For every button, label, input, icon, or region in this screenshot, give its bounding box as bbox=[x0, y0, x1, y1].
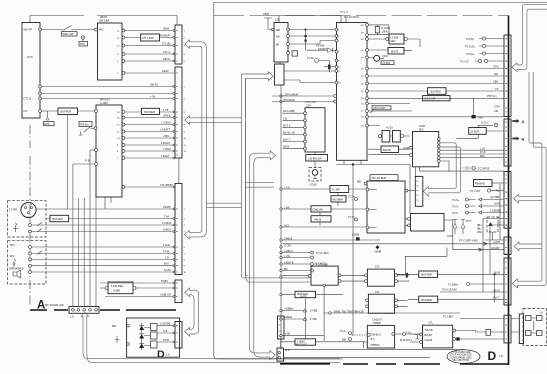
wire IC602 outputs to strip CN602 bbox=[125, 112, 175, 187]
wire packs to strip CN605 bbox=[157, 326, 175, 342]
diode D602 bbox=[139, 334, 144, 339]
svg-text:4.5V +5V: 4.5V +5V bbox=[305, 100, 316, 104]
trimmer RT601 bbox=[79, 122, 92, 127]
svg-text:5V(B): 5V(B) bbox=[161, 279, 168, 283]
box T4 bbox=[311, 216, 331, 222]
svg-text:(BL): (BL) bbox=[477, 223, 482, 227]
label box 2.2-5 OF bbox=[423, 96, 451, 101]
svg-text:TO-C: TO-C bbox=[340, 329, 346, 333]
svg-text:S-D-1: S-D-1 bbox=[481, 121, 488, 125]
pot symbol in jack box bbox=[13, 223, 18, 233]
svg-text:MIC: MIC bbox=[10, 254, 15, 258]
diodes D702 D703 bbox=[453, 224, 457, 229]
svg-text:L30 BN SW: L30 BN SW bbox=[308, 156, 322, 160]
cap symbols near CASS bbox=[349, 332, 352, 335]
svg-text:+5B L: +5B L bbox=[163, 134, 170, 138]
svg-text:SPEAKER 8: SPEAKER 8 bbox=[9, 267, 24, 271]
svg-text:BM: BM bbox=[342, 338, 346, 342]
hollow arrow A1 to CN601 bbox=[185, 40, 201, 49]
connector J901 bottom left bbox=[277, 348, 284, 361]
junction square LT5B bbox=[456, 337, 459, 340]
svg-text:+5MHz: +5MHz bbox=[284, 315, 293, 319]
svg-text:T.A.L: T.A.L bbox=[406, 331, 412, 335]
hollow arrow into audio connector bbox=[423, 187, 428, 197]
wire IC1 top feed bbox=[29, 16, 31, 23]
svg-text:LC309: LC309 bbox=[391, 36, 399, 40]
hollow arrow into CN901 bbox=[512, 63, 517, 72]
wire mic rows to strip CN603 bbox=[31, 247, 175, 272]
IC601 switch block bbox=[98, 23, 123, 80]
hollow bus V3 top corner to IC-A arrow bbox=[242, 74, 269, 78]
label box OM CONT bbox=[372, 106, 391, 110]
svg-text:BUFFER: BUFFER bbox=[145, 110, 156, 114]
svg-text:MB: MB bbox=[357, 180, 361, 184]
wire BHD lower link bbox=[405, 248, 447, 274]
svg-text:MG B: MG B bbox=[315, 218, 322, 222]
svg-text:5 VBL: 5 VBL bbox=[310, 317, 318, 321]
IC SY601 (left tall block) bbox=[22, 23, 40, 119]
box CTL1 bbox=[367, 269, 394, 286]
wire M1 to column bbox=[282, 113, 303, 148]
note ellipse bbox=[447, 350, 480, 364]
svg-text:A 320: A 320 bbox=[386, 126, 393, 130]
pin circles L201 bbox=[271, 28, 273, 30]
box CASS timer bbox=[367, 325, 394, 348]
TC socket pins row2 bbox=[482, 44, 485, 47]
svg-text:CM: CM bbox=[494, 109, 498, 113]
svg-text:100K: 100K bbox=[382, 30, 388, 34]
svg-text:MI: MI bbox=[276, 43, 279, 47]
svg-text:MB: MB bbox=[112, 324, 116, 328]
pin circles IC602 right bbox=[122, 111, 125, 114]
wire triangle rows bbox=[281, 311, 305, 320]
pin circles IC201 right bbox=[366, 24, 369, 27]
svg-text:DET: DET bbox=[391, 39, 397, 43]
hollow arrow A5 to CN605 bbox=[185, 328, 190, 337]
cross symbol left of D box bbox=[115, 336, 120, 343]
svg-text:CTL A: CTL A bbox=[163, 50, 170, 54]
connector strip CN904 bbox=[504, 237, 511, 255]
connector pins CN905 bbox=[505, 319, 507, 340]
svg-text:B: B bbox=[522, 138, 525, 142]
svg-text:LT500: LT500 bbox=[310, 183, 318, 187]
bus from top right corner to CN901 arrow bbox=[517, 5, 547, 70]
svg-text:TR B: TR B bbox=[163, 338, 169, 342]
IC L202 aux block bbox=[275, 64, 285, 85]
TP L703 marker bbox=[487, 189, 490, 192]
hollow arrow A2 to CN602 bbox=[185, 116, 242, 125]
svg-text:AD13: AD13 bbox=[162, 69, 169, 73]
wire M1 bottom link bbox=[314, 152, 316, 168]
svg-text:+5B: +5B bbox=[285, 332, 290, 336]
wire AU bus vertical bbox=[494, 274, 496, 302]
connector strip CN604b bbox=[175, 280, 182, 303]
svg-text:(M): (M) bbox=[494, 72, 498, 76]
pin circles AL501 bbox=[437, 138, 440, 141]
svg-text:CTL: CTL bbox=[375, 290, 380, 294]
dashed box camera jack bbox=[8, 201, 47, 237]
svg-text:MT SIGNAL SW: MT SIGNAL SW bbox=[45, 303, 64, 307]
svg-text:+5(B)Hz: +5(B)Hz bbox=[284, 307, 294, 311]
svg-text:/BL/: /BL/ bbox=[477, 227, 482, 231]
connector strip CN904b bbox=[504, 258, 511, 305]
box T3 bbox=[311, 206, 331, 212]
TC socket pins row1 bbox=[482, 37, 485, 40]
wire CN904 row 292 bbox=[440, 291, 504, 293]
svg-text:2 B: 2 B bbox=[283, 116, 287, 120]
mic symbol bbox=[12, 259, 16, 268]
svg-text:+5(B) SH: +5(B) SH bbox=[160, 293, 171, 297]
svg-text:SY6: SY6 bbox=[27, 55, 33, 59]
pin stub circles strip CN601-603 bbox=[173, 30, 175, 343]
battery cell boxes bbox=[526, 316, 532, 321]
cap markers CN903 rows bbox=[466, 198, 469, 201]
svg-text:TO A UL/UM: TO A UL/UM bbox=[442, 288, 457, 292]
svg-text:CASS(Y): CASS(Y) bbox=[372, 318, 383, 322]
buffer B603 bbox=[50, 215, 69, 221]
svg-text:WF0 I/O: WF0 I/O bbox=[100, 98, 110, 102]
test point TL201 bbox=[315, 59, 319, 63]
wire box B to CN904 bbox=[444, 220, 504, 251]
svg-text:TP 4 BG: TP 4 BG bbox=[468, 239, 478, 243]
svg-text:CBF: CBF bbox=[493, 80, 499, 84]
svg-text:L B: L B bbox=[165, 256, 169, 260]
svg-text:A: A bbox=[522, 120, 525, 124]
wire CN903 218 row bbox=[483, 219, 504, 293]
wire IC201 to detector bbox=[368, 39, 420, 47]
box module bbox=[295, 339, 316, 345]
svg-text:L5/MP: L5/MP bbox=[163, 205, 171, 209]
svg-text:AD M: AD M bbox=[493, 288, 499, 292]
svg-text:C MODE: C MODE bbox=[160, 322, 171, 326]
wire battery links bbox=[511, 318, 537, 333]
svg-text:MT6: MT6 bbox=[44, 122, 50, 126]
dashed diode box D704 bbox=[487, 217, 498, 232]
svg-text:BLK Y: BLK Y bbox=[283, 138, 291, 142]
wire IC201 bottom drops bbox=[344, 160, 361, 336]
wire CN905 row 318 bbox=[460, 318, 504, 320]
svg-text:BUFFER: BUFFER bbox=[422, 298, 433, 302]
svg-text:CO: CO bbox=[24, 109, 28, 113]
connector strip CN601 bbox=[175, 25, 182, 64]
svg-text:R L500: R L500 bbox=[382, 26, 391, 30]
svg-text:OM CONT: OM CONT bbox=[374, 106, 387, 110]
wire LT5B outputs bbox=[456, 331, 504, 340]
svg-text:TO 5+ BLK: TO 5+ BLK bbox=[316, 251, 329, 255]
wire IC602 bottom pins down bbox=[105, 197, 111, 209]
wire audio rail with label box bbox=[368, 97, 504, 99]
wire row 238.7 bbox=[282, 239, 380, 241]
wire L201-IC201 links bbox=[289, 30, 336, 45]
pin BHD right to audio connector bbox=[405, 189, 408, 192]
svg-text:TC 5+: TC 5+ bbox=[348, 215, 356, 219]
svg-text:D: D bbox=[157, 348, 165, 360]
wire bottom rails bbox=[284, 350, 465, 358]
hollow bus from header down right bbox=[83, 320, 340, 359]
hollow bus V1 bbox=[199, 42, 206, 237]
svg-text:BUFFER: BUFFER bbox=[422, 273, 433, 277]
pin circles IC SY601 bbox=[39, 28, 42, 31]
pin circles L201 right bbox=[287, 28, 290, 31]
box MT601 CONT bbox=[141, 34, 160, 41]
svg-text:L510: L510 bbox=[382, 54, 388, 58]
pin circles M1 bbox=[304, 112, 307, 115]
wire buffer to IC602 bbox=[78, 110, 95, 112]
wire top pins of column bbox=[272, 96, 335, 102]
wire IC601 outputs to strip CN601 bbox=[125, 31, 175, 74]
wire T1 row bbox=[282, 189, 366, 206]
IC602 I/O block bbox=[96, 105, 122, 197]
switch in jack box bbox=[37, 222, 42, 232]
svg-text:CM(L)/M: CM(L)/M bbox=[313, 208, 323, 212]
connector strip CN903 bbox=[504, 172, 511, 229]
svg-text:AU C: AU C bbox=[493, 296, 499, 300]
svg-text:MT CONT: MT CONT bbox=[143, 36, 155, 40]
pin circles IC602 left bbox=[95, 110, 98, 113]
IC201 main processor bbox=[337, 23, 368, 161]
svg-text:PB L50 BHD: PB L50 BHD bbox=[372, 176, 387, 180]
connector pins CN904 bbox=[505, 240, 507, 303]
svg-text:L ALE: L ALE bbox=[163, 243, 170, 247]
buffer B902 bbox=[419, 271, 438, 277]
wire SY601 to SW601 bbox=[41, 29, 94, 31]
wire IC201 top pins bbox=[345, 16, 347, 23]
hollow bus V5 bbox=[249, 159, 270, 357]
svg-text:BM9L-7BL-7BM-7BM-L/B: BM9L-7BL-7BM-7BM-L/B bbox=[334, 310, 364, 314]
svg-text:L50: L50 bbox=[306, 104, 311, 108]
svg-text:S CM: S CM bbox=[164, 268, 170, 272]
svg-text:T/A.LB: T/A.LB bbox=[425, 328, 433, 332]
wire mute bbox=[368, 49, 412, 52]
bus branch arrow 246 bbox=[514, 242, 542, 251]
dashed box battery right bbox=[523, 309, 547, 346]
box LT5B control bbox=[423, 325, 453, 348]
svg-text:MO: MO bbox=[99, 28, 103, 32]
column pin labels mid bbox=[280, 95, 282, 97]
mute box bbox=[388, 48, 404, 55]
labels CN603 rows bbox=[162, 205, 172, 272]
svg-text:BN: BN bbox=[276, 35, 280, 39]
connector strip CN602 bbox=[175, 67, 182, 158]
svg-text:DR M: DR M bbox=[163, 57, 170, 61]
svg-text:AL50: AL50 bbox=[419, 124, 426, 128]
svg-text:MIC: MIC bbox=[419, 128, 424, 132]
wire CN904 row 240 bbox=[485, 239, 504, 241]
hollow arrow V5 into J901 bbox=[270, 351, 275, 360]
IC L201 (left column block) bbox=[274, 23, 288, 63]
svg-text:SW 30: SW 30 bbox=[150, 83, 158, 87]
svg-text:1 BGAT: 1 BGAT bbox=[161, 141, 170, 145]
hollow bus H2 stub bbox=[246, 183, 275, 188]
slash mark on wire bbox=[371, 109, 375, 113]
hollow bus V3 bbox=[242, 74, 248, 278]
svg-text:WF03: WF03 bbox=[100, 15, 107, 19]
svg-text:(L)TNBL: (L)TNBL bbox=[490, 195, 500, 199]
resistor pack RA602 bbox=[151, 332, 158, 339]
wires lower column rows bbox=[280, 188, 282, 190]
label box PB-BHD BKW bbox=[474, 180, 493, 187]
svg-text:T-L MP: T-L MP bbox=[332, 188, 341, 192]
DIN connector J601 bbox=[21, 202, 36, 217]
svg-text:TIMER: TIMER bbox=[373, 321, 381, 325]
cap symbols near T rows bbox=[355, 198, 358, 201]
svg-text:KD BTT: KD BTT bbox=[318, 47, 328, 51]
svg-text:C5M8: C5M8 bbox=[352, 233, 359, 237]
resistor R905 bbox=[486, 329, 491, 335]
connector strip CN605 bbox=[175, 322, 182, 349]
hollow arrow A4 to CN604b bbox=[185, 288, 190, 297]
hollow bus B4 bottom bbox=[244, 274, 311, 282]
box D section bbox=[127, 318, 180, 357]
wire column main bbox=[280, 85, 282, 350]
svg-text:L5 SER: L5 SER bbox=[470, 129, 479, 133]
box B sub under connector bbox=[411, 214, 445, 232]
svg-text:TP6: TP6 bbox=[80, 42, 85, 46]
svg-text:SW UP: SW UP bbox=[24, 28, 33, 32]
labels CN901 lower rows bbox=[494, 105, 500, 113]
svg-text:TK-C(S): TK-C(S) bbox=[465, 45, 475, 49]
svg-text:L B: L B bbox=[499, 354, 503, 358]
wire row 247 bbox=[282, 242, 504, 245]
svg-text:TRI-BU: TRI-BU bbox=[80, 122, 89, 126]
svg-text:CONTL PANEL SMD: CONTL PANEL SMD bbox=[450, 356, 472, 359]
svg-text:M.B: M.B bbox=[285, 348, 290, 352]
wire rows small caps bbox=[282, 253, 310, 271]
svg-text:C5MB: C5MB bbox=[374, 250, 381, 254]
off page arrow A bbox=[513, 119, 520, 123]
svg-text:2.2-5 /OF: 2.2-5 /OF bbox=[425, 97, 436, 101]
hollow arrow A3 to CN603 bbox=[185, 230, 201, 239]
svg-text:L-5: L-5 bbox=[70, 315, 74, 319]
TC socket pins row3 bbox=[482, 52, 485, 55]
wire long rails SY601 to strip CN602 bbox=[41, 87, 175, 99]
svg-text:TL-50: TL-50 bbox=[307, 56, 314, 60]
svg-text:MB: MB bbox=[276, 28, 280, 32]
wire CN904 row 284 bbox=[467, 283, 470, 286]
svg-text:(L)SMT: (L)SMT bbox=[491, 246, 500, 250]
labels CN904 rows bbox=[491, 240, 501, 300]
wire BHD left edge drop bbox=[369, 190, 377, 228]
wire drop to 5VR mark bbox=[473, 98, 475, 115]
svg-text:5 VBB: 5 VBB bbox=[310, 309, 318, 313]
svg-text:J T485: J T485 bbox=[9, 208, 17, 212]
svg-text:+LMB: +LMB bbox=[113, 289, 120, 293]
svg-text:MIC: MIC bbox=[480, 154, 485, 158]
pin circles IC601 bbox=[95, 28, 98, 31]
svg-text:CAL/B: CAL/B bbox=[425, 338, 433, 342]
svg-text:TO-5-: TO-5- bbox=[452, 211, 459, 215]
svg-text:+ 5 BUS: + 5 BUS bbox=[161, 121, 171, 125]
svg-text:BAL/B: BAL/B bbox=[383, 148, 391, 152]
svg-text:L L5: L L5 bbox=[480, 146, 486, 150]
pin circles jack box bbox=[29, 224, 32, 227]
svg-text:ACC+5(B): ACC+5(B) bbox=[283, 109, 295, 113]
wire top rail left page bbox=[30, 16, 177, 26]
box L30 BN SW bbox=[306, 155, 328, 162]
svg-text:MUTE: MUTE bbox=[391, 49, 399, 53]
svg-text:(+)5V: (+)5V bbox=[494, 202, 501, 206]
svg-text:BUFFER: BUFFER bbox=[53, 217, 64, 221]
labels CN903 rows bbox=[490, 189, 501, 226]
right page top border bbox=[214, 2, 547, 4]
balance box bbox=[381, 146, 399, 153]
dashed box mic/speaker bbox=[8, 241, 47, 284]
resistor pack RA603 bbox=[151, 341, 158, 348]
svg-text:CTL: CTL bbox=[375, 265, 380, 269]
dashed box LED bbox=[309, 168, 321, 182]
connector strip CN603 bbox=[175, 183, 182, 274]
wire T3 row bbox=[282, 209, 366, 226]
wire labeled net row bbox=[324, 312, 460, 314]
connector pins CN902 bbox=[505, 122, 507, 162]
wire drop to D201 bbox=[305, 30, 307, 51]
svg-text:CTL PB(B): CTL PB(B) bbox=[160, 183, 173, 187]
service box L5 bbox=[469, 128, 487, 135]
symbols TC SPOS bbox=[465, 166, 468, 169]
switch S901 bbox=[63, 26, 72, 31]
svg-text:GATE: GATE bbox=[300, 295, 307, 299]
dash-dot left page border bbox=[29, 125, 31, 306]
svg-text:S901 SW: S901 SW bbox=[63, 32, 75, 36]
svg-text:L20: L20 bbox=[275, 18, 280, 22]
svg-text:(*) CP AUD CM GRD: (*) CP AUD CM GRD bbox=[450, 354, 472, 357]
junction square C5M8 bbox=[356, 237, 360, 240]
buffer B901 bbox=[428, 88, 447, 95]
hollow bus AL501 to CN audio connector bbox=[428, 143, 460, 193]
svg-text:T/CM: T/CM bbox=[163, 250, 169, 254]
detector box LC309 bbox=[389, 34, 404, 44]
polarity mark 5VR bbox=[472, 115, 476, 118]
svg-text:TC-LBM: TC-LBM bbox=[443, 315, 453, 319]
wire top rail right page bbox=[279, 16, 341, 23]
svg-text:TO-5+: TO-5+ bbox=[452, 198, 460, 202]
svg-text:N B: N B bbox=[163, 329, 168, 333]
svg-text:BCT 2: BCT 2 bbox=[283, 123, 291, 127]
svg-text:BL+5L CB: BL+5L CB bbox=[283, 131, 295, 135]
svg-text:T/C(S): T/C(S) bbox=[466, 52, 474, 56]
wire strip link bbox=[178, 158, 180, 183]
svg-text:D70: D70 bbox=[466, 219, 471, 223]
TC socket pins row4 bbox=[478, 59, 481, 62]
page A bottom border bbox=[30, 309, 176, 311]
svg-text:KL: KL bbox=[496, 189, 500, 193]
hollow bus pair arrows CN604b CN605 bbox=[190, 290, 199, 334]
svg-text:24V8: 24V8 bbox=[447, 234, 454, 238]
svg-text:TL-5(B)+: TL-5(B)+ bbox=[448, 283, 459, 287]
pin circles IC201 left bbox=[335, 28, 338, 31]
svg-text:P B: P B bbox=[86, 159, 90, 163]
wire L201 to L202 link bbox=[279, 62, 281, 64]
svg-text:R L5: R L5 bbox=[480, 150, 486, 154]
svg-text:TC 2-7: TC 2-7 bbox=[340, 10, 348, 14]
svg-text:CTL: CTL bbox=[428, 321, 433, 325]
svg-text:B M: B M bbox=[164, 262, 169, 266]
buffer B903 bbox=[419, 296, 438, 303]
svg-text:B A: B A bbox=[371, 337, 375, 341]
right page left border bbox=[214, 3, 343, 360]
diode D201 bbox=[328, 48, 333, 53]
connector pins CN903 bbox=[505, 175, 507, 225]
svg-text:TC SPOS: TC SPOS bbox=[478, 167, 490, 171]
svg-text:+CMT: +CMT bbox=[493, 240, 501, 244]
pin ticks strip CN601 bbox=[117, 25, 508, 274]
right page bottom thick dashes bbox=[280, 363, 509, 365]
buffer gate box bbox=[295, 291, 316, 297]
hollow bus H3 from V5 top bbox=[249, 151, 275, 163]
box T1 bbox=[330, 186, 349, 193]
svg-text:CTM: CTM bbox=[493, 65, 499, 69]
pin header CN604 bbox=[69, 307, 99, 314]
